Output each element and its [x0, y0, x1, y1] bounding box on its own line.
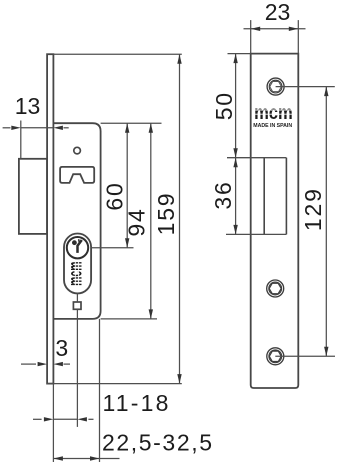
svg-text:129: 129 [300, 187, 326, 231]
key glyph inside cylinder [72, 239, 82, 253]
dim 22,5-32,5 [53, 458, 119, 460]
svg-text:50: 50 [211, 91, 237, 120]
svg-text:36: 36 [210, 180, 236, 209]
svg-text:60: 60 [101, 181, 127, 210]
50 top ext [228, 53, 251, 55]
hole 3 (bottom screw) [267, 348, 284, 365]
dim 129 [325, 87, 327, 357]
latch follower window with bottom bump [60, 167, 94, 183]
faceplate (front plate, side view) [47, 54, 53, 383]
svg-text:23: 23 [265, 0, 291, 25]
svg-text:mcm: mcm [254, 102, 293, 124]
top ext (faceplate top -> 159 dim) [53, 53, 181, 55]
129 ext from hole1 [276, 86, 335, 88]
dim 23 [244, 28, 306, 30]
dim 50 [235, 54, 237, 158]
svg-text:22,5-32,5: 22,5-32,5 [102, 430, 214, 456]
extension lines left view [21, 54, 182, 462]
logo stripe highlights [75, 262, 78, 286]
bottom ext (faceplate bottom -> 159 dim) [47, 383, 182, 385]
hole 1 (top screw) [267, 78, 284, 95]
129 ext from hole3 [275, 355, 335, 357]
lock case body with rounded right corners [53, 123, 100, 319]
dim 11-18 [33, 418, 94, 420]
ext lines right view [228, 20, 336, 356]
svg-text:13: 13 [15, 93, 41, 119]
case back ext down [99, 319, 101, 462]
faceplate front rect [251, 54, 299, 388]
small hole on case [74, 147, 81, 154]
dim 36 [235, 158, 237, 235]
dim 3 (faceplate thickness) [21, 363, 70, 365]
svg-text:MADE IN SPAIN: MADE IN SPAIN [253, 123, 292, 129]
svg-text:3: 3 [55, 335, 68, 361]
svg-text:11-18: 11-18 [103, 390, 171, 416]
cylinder circle [67, 237, 88, 258]
dim 13 [3, 127, 69, 129]
13 ext line [20, 121, 22, 159]
svg-text:159: 159 [153, 192, 179, 236]
svg-text:94: 94 [124, 207, 150, 236]
cylinder fixing screw square [73, 302, 81, 309]
hole 2 (middle screw) [267, 280, 284, 297]
cylinder profile (stadium outline) [64, 234, 91, 294]
dim 159 [179, 54, 181, 383]
dim 94 [150, 123, 152, 319]
latch window (front) [264, 158, 286, 235]
23 ext lines [250, 20, 252, 54]
svg-text:mcm: mcm [65, 262, 86, 286]
dim 60 [126, 123, 128, 248]
cylinder centre ext [91, 247, 133, 249]
centre line through cylinder [76, 294, 78, 427]
strike box protruding left of faceplate [19, 159, 47, 234]
case top ext [101, 122, 162, 124]
faceplate inner ext down [52, 384, 54, 462]
case bottom ext [101, 318, 157, 320]
